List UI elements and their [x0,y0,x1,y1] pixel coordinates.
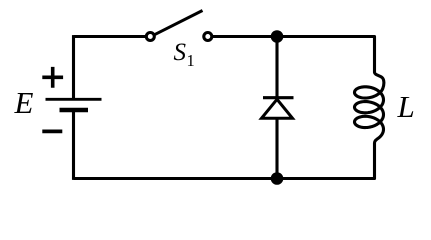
svg-text:S: S [174,39,187,66]
svg-text:L: L [397,89,415,124]
battery minus sign [42,129,62,133]
junction dot bottom [271,172,284,185]
inductor L coil with leads [355,37,384,179]
wire top-right horizontal [213,35,375,38]
wire top-left horizontal [74,35,146,38]
switch S1 right terminal circle [204,33,212,41]
svg-text:1: 1 [187,51,195,70]
wire left vertical battery top lead [72,35,75,99]
switch S1 left terminal circle [146,33,154,41]
battery E positive plate [46,98,102,101]
battery plus sign [42,67,63,88]
wire left vertical battery bottom lead [72,110,75,180]
junction dot top [271,30,284,43]
switch S1 blade [155,11,203,35]
svg-text:E: E [14,85,34,120]
wire diode branch top [275,37,278,97]
diode D anode triangle [262,99,293,118]
wire bottom horizontal [74,177,375,180]
wire diode branch bottom [275,119,278,179]
battery E negative plate [60,108,89,113]
diode D cathode bar [263,96,294,99]
